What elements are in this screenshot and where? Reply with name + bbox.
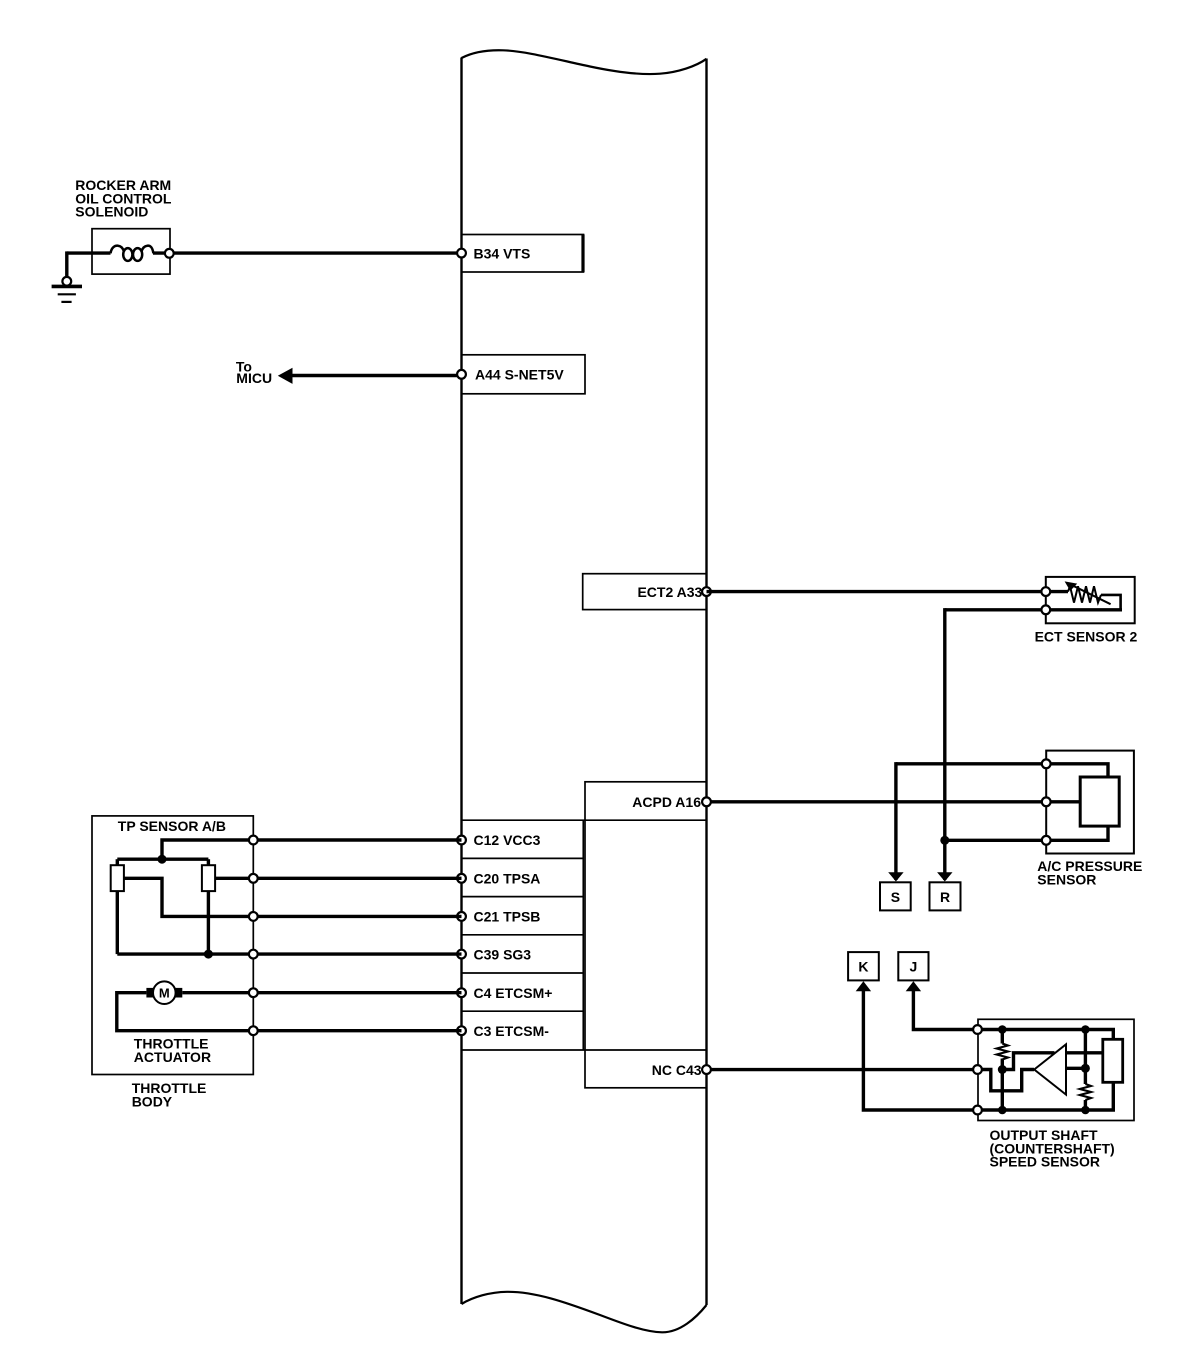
pin terminals left column bbox=[457, 836, 466, 1036]
junction node SG3 bbox=[204, 950, 213, 959]
wire A/C top to S joint bbox=[896, 762, 1042, 880]
wire solenoid to B34 VTS bbox=[67, 251, 462, 254]
svg-text:TP SENSOR A/B: TP SENSOR A/B bbox=[118, 818, 226, 834]
svg-text:BODY: BODY bbox=[132, 1093, 173, 1109]
arrowhead to MICU bbox=[278, 368, 293, 384]
junction bottom rail left bbox=[998, 1106, 1007, 1115]
wire A/C bottom to R line bbox=[945, 839, 1042, 842]
joint connector K bbox=[848, 952, 879, 980]
divider line bottom of pin rows bbox=[462, 1049, 707, 1051]
output shaft speed sensor box bbox=[978, 1019, 1134, 1120]
op-amp U1 bbox=[1034, 1044, 1066, 1094]
wire ACPD to A/C pressure sensor bbox=[711, 800, 1046, 803]
label NC C43 bbox=[652, 1062, 702, 1078]
pin column right edge bbox=[582, 820, 584, 1050]
svg-text:C21 TPSB: C21 TPSB bbox=[474, 909, 541, 925]
svg-text:MICU: MICU bbox=[236, 370, 272, 386]
solenoid coil L1 bbox=[111, 246, 154, 261]
svg-text:K: K bbox=[858, 959, 868, 975]
throttle body box bbox=[92, 816, 253, 1075]
wire speed sensor top to J bbox=[913, 991, 977, 1030]
label THROTTLE ACTUATOR bbox=[134, 1036, 211, 1065]
resistor R2 speed sensor bbox=[1080, 1084, 1091, 1110]
pin box B34 VTS bbox=[462, 235, 584, 273]
label A/C PRESSURE SENSOR bbox=[1037, 858, 1142, 887]
pin row dividers bbox=[462, 858, 584, 1011]
PCM band left edge bbox=[460, 58, 462, 1305]
joint connector R bbox=[930, 882, 961, 910]
A/C sensor mid wire bbox=[1046, 800, 1080, 803]
arrowhead into S bbox=[888, 872, 903, 881]
junction R line bbox=[940, 836, 949, 845]
svg-text:ECT2 A33: ECT2 A33 bbox=[637, 584, 702, 600]
terminal ACPD A16 bbox=[702, 797, 711, 806]
PCM middle connector box ACPD/NC bbox=[585, 782, 707, 1088]
junction top rail left bbox=[998, 1025, 1007, 1034]
ECT sensor 2 box bbox=[1046, 577, 1135, 623]
speed sensor bottom rail bbox=[978, 1082, 1114, 1110]
terminal ECT2 A33 bbox=[702, 587, 711, 596]
solenoid box bbox=[92, 229, 170, 274]
svg-text:C3 ETCSM-: C3 ETCSM- bbox=[474, 1023, 550, 1039]
label ROCKER ARM OIL CONTROL SOLENOID bbox=[75, 177, 172, 220]
terminal A44 bbox=[457, 370, 466, 379]
label THROTTLE BODY bbox=[132, 1080, 207, 1109]
svg-text:M: M bbox=[159, 986, 170, 1001]
A/C sensor element bbox=[1080, 777, 1119, 826]
svg-text:ACPD A16: ACPD A16 bbox=[632, 794, 701, 810]
A/C pressure sensor box bbox=[1046, 751, 1134, 854]
svg-text:C12 VCC3: C12 VCC3 bbox=[474, 832, 541, 848]
pin box ECT2 A33 bbox=[583, 574, 707, 610]
svg-text:ACTUATOR: ACTUATOR bbox=[134, 1049, 211, 1065]
wire to op-amp upper input bbox=[1002, 1053, 1054, 1070]
junction bottom rail right bbox=[1081, 1106, 1090, 1115]
A/C sensor bottom wire bbox=[1046, 826, 1108, 840]
wire VCC3 internal bbox=[162, 840, 253, 859]
joint connector J bbox=[898, 952, 928, 980]
wires TP sensor rows to PCM bbox=[253, 840, 461, 1031]
wire NC to op-amp apex bbox=[978, 1070, 1035, 1091]
svg-text:S: S bbox=[891, 889, 900, 905]
PCM band torn bottom edge bbox=[462, 1292, 707, 1333]
wire ECT sensor to R joint bbox=[945, 608, 1042, 880]
solenoid terminal bbox=[165, 249, 174, 258]
ground terminal bbox=[62, 277, 71, 286]
junction top rail right bbox=[1081, 1025, 1090, 1034]
label ECT SENSOR 2 bbox=[1035, 628, 1138, 644]
arrowhead into J bbox=[906, 981, 921, 991]
wire mid-left bus down bbox=[1001, 1070, 1004, 1111]
A/C sensor top wire bbox=[1046, 764, 1108, 777]
resistor TP sensor A bbox=[111, 859, 124, 954]
svg-text:SPEED SENSOR: SPEED SENSOR bbox=[990, 1154, 1100, 1170]
TP box terminals bbox=[249, 836, 258, 1036]
pin labels C12 VCC3, C20 TPSA, C21 TPSB, C39 SG3, C4 ETCSM+, C3 ETCSM- bbox=[474, 832, 553, 1039]
junction right bus bbox=[1081, 1064, 1090, 1073]
thermistor arrow bbox=[1065, 581, 1111, 604]
label OUTPUT SHAFT (COUNTERSHAFT) SPEED SENSOR bbox=[990, 1127, 1115, 1170]
svg-text:C4 ETCSM+: C4 ETCSM+ bbox=[474, 985, 553, 1001]
label TP SENSOR A/B bbox=[118, 818, 226, 834]
terminal NC C43 bbox=[702, 1065, 711, 1074]
svg-text:J: J bbox=[910, 959, 918, 975]
ECT sensor 2 terminals bbox=[1041, 587, 1050, 614]
resistor R1 speed sensor bbox=[997, 1030, 1008, 1070]
svg-text:SENSOR: SENSOR bbox=[1037, 872, 1096, 888]
label To MICU bbox=[236, 358, 272, 386]
throttle motor M1 bbox=[146, 981, 182, 1004]
resistor TP sensor B bbox=[202, 859, 215, 954]
junction mid left bbox=[998, 1065, 1007, 1074]
A/C sensor terminals bbox=[1042, 759, 1051, 844]
arrowhead into K bbox=[856, 981, 871, 991]
svg-text:C20 TPSA: C20 TPSA bbox=[474, 871, 541, 887]
terminal B34 bbox=[457, 249, 466, 258]
PCM band torn top edge bbox=[462, 50, 707, 74]
wire ETCSM+ internal bbox=[182, 991, 253, 994]
svg-text:R: R bbox=[940, 889, 950, 905]
joint connector S bbox=[880, 882, 911, 910]
arrowhead into R bbox=[937, 872, 952, 881]
ground symbol bbox=[52, 286, 82, 302]
pin box A44 S-NET5V bbox=[462, 355, 586, 394]
speed sensor top rail bbox=[978, 1030, 1114, 1040]
speed sensor pickup element bbox=[1103, 1039, 1123, 1082]
svg-text:A44 S-NET5V: A44 S-NET5V bbox=[475, 367, 564, 383]
svg-text:C39 SG3: C39 SG3 bbox=[474, 946, 532, 962]
op-amp output wires bbox=[1066, 1053, 1103, 1069]
svg-text:ECT SENSOR 2: ECT SENSOR 2 bbox=[1035, 628, 1138, 644]
divider line top of pin rows bbox=[462, 819, 707, 821]
PCM band right edge bbox=[705, 59, 707, 1306]
svg-text:B34 VTS: B34 VTS bbox=[474, 245, 531, 261]
thermistor RT1 bbox=[1049, 586, 1122, 610]
right bus wire bbox=[1084, 1030, 1087, 1085]
junction node VCC3 bbox=[158, 855, 167, 864]
wire SG3 internal bbox=[117, 952, 253, 955]
wire speed sensor bottom to K bbox=[863, 991, 977, 1111]
wire ECT2 to sensor bbox=[707, 590, 1046, 593]
speed sensor terminals bbox=[973, 1025, 982, 1114]
wire TPSA internal bbox=[215, 877, 253, 880]
label ACPD A16 bbox=[632, 794, 701, 810]
svg-text:NC C43: NC C43 bbox=[652, 1062, 702, 1078]
node line top of resistors bbox=[117, 858, 208, 861]
wire NC C43 to speed sensor bbox=[711, 1068, 978, 1071]
wire to ground bbox=[65, 251, 68, 278]
svg-text:SOLENOID: SOLENOID bbox=[75, 204, 148, 220]
wire ETCSM- internal bbox=[117, 993, 254, 1031]
wire A44 to MICU bbox=[292, 374, 458, 377]
wire TPSB internal bbox=[124, 878, 253, 916]
